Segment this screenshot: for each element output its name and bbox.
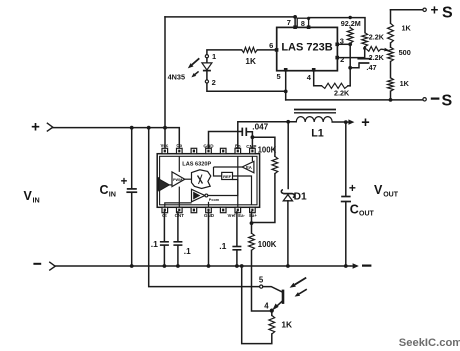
svg-text:7: 7 bbox=[287, 18, 291, 27]
resistor R-2.2K from pin 4 bbox=[322, 83, 351, 88]
label D1 bbox=[294, 192, 307, 203]
potentiometer R-500 bbox=[388, 47, 394, 61]
resistor R-100K lower (Ea- to opto emitter) bbox=[249, 223, 272, 311]
capacitor C1 0.1 at Ct bbox=[160, 212, 169, 266]
svg-text:LAS 723B: LAS 723B bbox=[281, 42, 332, 54]
capacitor C_OUT bbox=[341, 197, 351, 267]
svg-text:CNT: CNT bbox=[175, 213, 185, 218]
pin label Ct bbox=[162, 213, 167, 218]
pin label Vcc bbox=[160, 143, 168, 148]
pin label GND bottom bbox=[204, 213, 215, 218]
wire sense column top bbox=[390, 10, 392, 23]
wire CMP pin stub bbox=[251, 137, 253, 148]
label C_OUT bbox=[350, 202, 375, 217]
svg-text:+: + bbox=[431, 3, 439, 18]
svg-text:V‌cc: V‌cc bbox=[160, 143, 168, 148]
diode D1 schottky bbox=[281, 190, 294, 201]
capacitor C2 0.1 at CNT bbox=[173, 212, 182, 266]
label .1 second bbox=[184, 247, 191, 256]
svg-text:2.2K: 2.2K bbox=[369, 33, 385, 42]
pin 3 label bbox=[340, 37, 344, 46]
svg-text:1K: 1K bbox=[245, 57, 256, 66]
watermark SeekIC.com bbox=[399, 337, 460, 349]
wire LED cathode to pin5 net bbox=[207, 83, 286, 91]
pin label CNT bbox=[175, 213, 185, 218]
label -S bbox=[431, 92, 453, 109]
label L1 bbox=[311, 128, 324, 140]
pin 4 label bbox=[307, 73, 312, 82]
wire U1 bottom stubs bbox=[165, 180, 238, 208]
wire L1 to output node bbox=[332, 120, 347, 124]
svg-text:.47: .47 bbox=[366, 63, 376, 72]
svg-text:2: 2 bbox=[340, 55, 344, 64]
node X vertical wire (pin3/92.2M down to 2.2K from pin4) bbox=[348, 44, 352, 86]
label 4 opto bbox=[264, 301, 269, 310]
wire driver output to Eo bbox=[208, 156, 238, 195]
oscillator OSC triangle in U1 bbox=[158, 177, 170, 191]
label .1 first bbox=[151, 239, 158, 249]
label + output bbox=[361, 115, 369, 131]
wire emitter return to ground rail bbox=[242, 266, 272, 344]
label C_IN plus bbox=[121, 176, 128, 188]
label 2 bbox=[212, 78, 216, 87]
svg-text:1K: 1K bbox=[281, 320, 292, 330]
label 1 bbox=[212, 52, 216, 61]
svg-text:V: V bbox=[24, 189, 33, 203]
wire Ea- pin down bbox=[250, 212, 254, 225]
wire osc to pwm bbox=[169, 184, 172, 186]
label 1K pin6 bbox=[245, 57, 256, 66]
wire REF to right bbox=[214, 167, 252, 205]
resistor R-1K emitter bbox=[269, 311, 275, 334]
light arrow 2 from LED bbox=[191, 71, 198, 77]
wire bottom (ground) rail bbox=[55, 264, 350, 268]
svg-text:1: 1 bbox=[212, 52, 216, 61]
wire pin 3 of U2 to node X bbox=[335, 42, 352, 46]
wire Co pin into U1 bbox=[178, 156, 180, 172]
input arrow chevron - bbox=[49, 262, 55, 271]
label .047 bbox=[252, 122, 268, 131]
wire +rail to opto collector bbox=[149, 128, 260, 287]
pin label Ea+ bbox=[249, 213, 257, 218]
latch blob in U1 bbox=[192, 170, 211, 189]
label 1K upper bbox=[402, 24, 412, 33]
svg-text:EA: EA bbox=[246, 165, 252, 170]
pin 7 label bbox=[287, 18, 291, 27]
label .47 bbox=[366, 63, 376, 72]
label +S bbox=[431, 3, 453, 22]
svg-text:C‌o: C‌o bbox=[176, 143, 182, 148]
inductor L1 coil bbox=[296, 117, 332, 122]
wire Ea- node to upper 100K bbox=[252, 174, 275, 223]
svg-text:L1: L1 bbox=[311, 128, 324, 140]
svg-text:.1: .1 bbox=[151, 239, 158, 249]
label 2.2K pin4 bbox=[334, 89, 350, 98]
label 1K emitter bbox=[281, 320, 292, 330]
terminal +S circle bbox=[423, 8, 426, 11]
op-amp U2 regulator LAS 723B box bbox=[277, 27, 338, 70]
svg-text:+: + bbox=[31, 119, 40, 136]
svg-text:P‌com: P‌com bbox=[209, 198, 220, 202]
pin label Co bbox=[176, 143, 182, 148]
pin 8 label bbox=[301, 19, 305, 28]
svg-text:500: 500 bbox=[399, 48, 411, 57]
wire between 1K and pot bbox=[390, 43, 392, 47]
resistor R-1K upper sense bbox=[388, 23, 394, 43]
svg-text:.1: .1 bbox=[219, 241, 226, 251]
wire output node down to C_OUT bbox=[345, 122, 347, 196]
svg-text:SeekIC.com: SeekIC.com bbox=[399, 337, 460, 349]
wire Eo pin up and right bbox=[238, 120, 296, 148]
input arrow chevron + bbox=[47, 123, 53, 132]
terminal -S circle bbox=[423, 98, 426, 101]
svg-text:5: 5 bbox=[277, 72, 281, 81]
svg-text:S: S bbox=[442, 92, 453, 109]
resistor R-2.2K horizontal to wiper bbox=[366, 47, 389, 52]
wire 1K to LED anode bbox=[207, 50, 242, 55]
label C_OUT plus bbox=[349, 181, 356, 195]
svg-text:OUT: OUT bbox=[383, 191, 399, 198]
wire + input rail bbox=[53, 126, 180, 148]
capacitor C-.047 bbox=[209, 128, 255, 149]
light arrow 1 into Q1 bbox=[290, 278, 307, 288]
resistor R-100K upper (CMP to Ea-) bbox=[272, 156, 278, 173]
svg-text:3: 3 bbox=[340, 37, 344, 46]
label - input bbox=[33, 263, 41, 265]
svg-text:100K: 100K bbox=[258, 240, 277, 249]
pin 2 label bbox=[340, 55, 344, 64]
pin label GND top bbox=[203, 143, 214, 148]
terminal circle 5 of 4N35 bbox=[260, 285, 263, 288]
wire D1 to ground rail bbox=[287, 201, 289, 266]
svg-text:C: C bbox=[100, 183, 109, 197]
error amp EA triangle in U1 bbox=[242, 161, 254, 173]
capacitor C3 0.1 at Vref bbox=[232, 212, 241, 266]
label Pcom bbox=[209, 198, 220, 202]
svg-text:C: C bbox=[350, 202, 359, 216]
resistor R-1K pin6 bbox=[242, 47, 258, 52]
pin 6 label bbox=[269, 41, 273, 50]
wire pin 6 of U2 bbox=[257, 48, 278, 52]
svg-text:2.2K: 2.2K bbox=[334, 89, 350, 98]
light arrow 1 from LED bbox=[188, 58, 200, 68]
svg-text:2: 2 bbox=[212, 78, 216, 87]
pin 5 label bbox=[277, 72, 281, 81]
label 2.2K horizontal bbox=[369, 53, 385, 62]
light arrow 2 into Q1 bbox=[295, 289, 307, 296]
label 92.2M bbox=[339, 19, 364, 28]
label + input bbox=[31, 119, 40, 136]
resistor R-2.2K vertical (pin3 side) bbox=[362, 33, 368, 47]
svg-text:1K: 1K bbox=[400, 79, 410, 88]
wire CMP node to 100K top bbox=[252, 137, 275, 156]
svg-text:+: + bbox=[361, 115, 369, 131]
capacitor C_IN bbox=[126, 189, 137, 266]
wire 92.2M top stub bbox=[349, 18, 351, 28]
inductor L1 core lines bbox=[294, 110, 336, 113]
svg-text:4: 4 bbox=[264, 301, 269, 310]
label - output bbox=[362, 265, 371, 267]
resistor R-92.2M vertical bbox=[347, 28, 353, 44]
label 100K lower bbox=[258, 240, 277, 249]
svg-text:OUT: OUT bbox=[359, 211, 375, 218]
diode LED of optocoupler 4N35 bbox=[202, 58, 212, 80]
wire pwm to latch bbox=[185, 178, 192, 180]
svg-text:GND: GND bbox=[204, 213, 215, 218]
wire top rail pin8 to resistor drop bbox=[309, 16, 365, 33]
wire pot bottom to -S rail bbox=[390, 91, 392, 100]
terminal circle 1 of 4N35 LED bbox=[205, 55, 208, 58]
wire EA output bbox=[214, 156, 253, 167]
resistor R-1K lower sense bbox=[388, 78, 394, 91]
label 100K upper bbox=[258, 145, 277, 154]
comparator PWM triangle in U1 bbox=[172, 172, 185, 187]
driver triangle in U1 bbox=[192, 189, 208, 202]
svg-text:CMP: CMP bbox=[246, 144, 256, 149]
wire pin 4 of U2 down bbox=[312, 68, 322, 86]
label LAS 6320P bbox=[182, 162, 211, 168]
svg-text:IN: IN bbox=[33, 195, 40, 204]
label V_IN bbox=[24, 189, 40, 204]
capacitor C_IN wire top bbox=[131, 128, 133, 189]
wire left vertical (V_IN+ riser) x=165 bbox=[164, 17, 166, 148]
label V_OUT bbox=[374, 183, 399, 198]
svg-text:PWM: PWM bbox=[173, 178, 182, 182]
wire +S stub bbox=[391, 9, 423, 11]
output arrow bottom rail bbox=[351, 263, 359, 269]
label 4N35 bbox=[168, 72, 185, 81]
pin label CMP bbox=[246, 144, 256, 149]
output arrow + bbox=[346, 119, 355, 124]
svg-text:LAS 6320P: LAS 6320P bbox=[182, 162, 211, 168]
svg-text:5: 5 bbox=[259, 275, 264, 284]
svg-text:E‌a+: E‌a+ bbox=[249, 213, 257, 218]
svg-text:V: V bbox=[374, 183, 383, 197]
wire GND pin to rail bbox=[208, 212, 210, 266]
pin label Eo bbox=[235, 143, 241, 148]
label .1 third bbox=[219, 241, 226, 251]
label 1K lower bbox=[400, 79, 410, 88]
wire -S rail bbox=[286, 98, 423, 102]
wire between pot and 1K bbox=[390, 62, 392, 78]
pin label Vref Ea- bbox=[228, 213, 246, 218]
svg-text:+: + bbox=[349, 181, 356, 195]
reference REF box in U1 bbox=[222, 172, 233, 179]
svg-text:1K: 1K bbox=[402, 24, 412, 33]
svg-text:100K: 100K bbox=[258, 145, 277, 154]
diode D1 wire top bbox=[287, 122, 289, 189]
label 2.2K vertical bbox=[369, 33, 385, 42]
svg-text:.047: .047 bbox=[252, 122, 268, 131]
svg-text:IN: IN bbox=[109, 189, 116, 198]
svg-text:4N35: 4N35 bbox=[168, 72, 185, 81]
pin 7 wire of U2 bbox=[293, 17, 297, 29]
wire pin 5 of U2 down to -S rail bbox=[284, 68, 288, 100]
svg-text:2.2K: 2.2K bbox=[369, 53, 385, 62]
svg-text:REF: REF bbox=[223, 174, 232, 179]
IC U1 LAS 6320P package bbox=[157, 148, 259, 212]
svg-text:92.2M: 92.2M bbox=[341, 19, 361, 28]
svg-text:+: + bbox=[121, 176, 128, 188]
svg-text:S: S bbox=[442, 4, 453, 21]
svg-text:.1: .1 bbox=[184, 247, 191, 256]
label 5 opto bbox=[259, 275, 264, 284]
label 500 bbox=[399, 48, 411, 57]
svg-text:6: 6 bbox=[269, 41, 273, 50]
label C_IN bbox=[100, 183, 116, 198]
svg-text:8: 8 bbox=[301, 19, 305, 28]
pin 8 wire of U2 (boxed 8) bbox=[297, 17, 310, 29]
wire top rail from left vertical to pin7 of U2 bbox=[165, 15, 297, 19]
terminal circle 2 of 4N35 LED bbox=[205, 80, 208, 83]
wire pin 2 of U2 to node Y bbox=[335, 47, 366, 60]
svg-text:D1: D1 bbox=[294, 192, 307, 203]
transistor Q1 phototransistor of 4N35 bbox=[263, 287, 283, 313]
capacitor C-0.47 bbox=[350, 59, 371, 68]
